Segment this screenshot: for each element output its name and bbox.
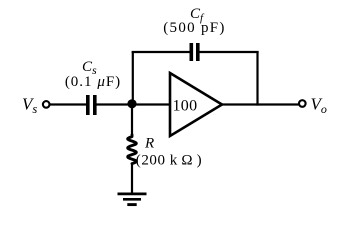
svg-text:(200 k Ω ): (200 k Ω ) bbox=[136, 153, 202, 169]
wire amplifier output to Vo bbox=[221, 103, 299, 105]
wire node up to feedback bbox=[132, 51, 134, 104]
wire Cs to amplifier input bbox=[96, 103, 170, 105]
ground bbox=[118, 194, 147, 205]
wire Vs terminal to Cs bbox=[50, 103, 86, 105]
node junction dot bbox=[127, 99, 136, 108]
terminal Vs (open circle) bbox=[43, 101, 50, 108]
wire node down to resistor bbox=[131, 104, 133, 136]
svg-text:R: R bbox=[144, 136, 154, 152]
op-amp U1 (gain 100 amplifier triangle) bbox=[170, 73, 222, 136]
wire feedback top left bbox=[132, 51, 190, 53]
terminal Vo (open circle) bbox=[299, 100, 306, 107]
svg-text:(0.1 μF): (0.1 μF) bbox=[65, 74, 121, 90]
capacitor Cs bbox=[86, 95, 97, 115]
resistor R (zigzag) bbox=[128, 135, 137, 164]
svg-text:(500 pF): (500 pF) bbox=[163, 20, 225, 36]
capacitor Cf bbox=[190, 43, 200, 61]
wire feedback top right bbox=[199, 51, 258, 53]
wire feedback right vertical bbox=[256, 51, 258, 106]
wire resistor to ground bbox=[131, 163, 133, 194]
svg-text:100: 100 bbox=[173, 98, 198, 115]
